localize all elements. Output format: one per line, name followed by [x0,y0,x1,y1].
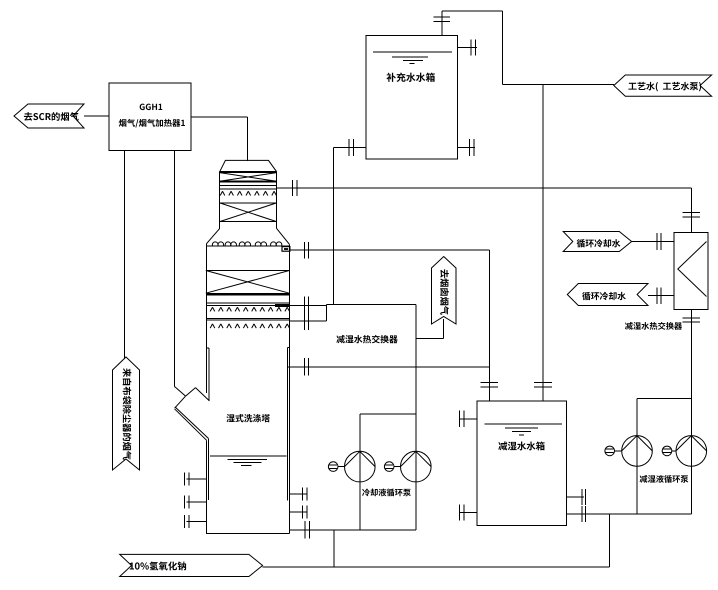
banner: flue gas to SCR [14,104,84,128]
packing X band 3 [206,270,289,272]
main column left wall upper [205,244,207,393]
spray nozzle row 3 [210,324,212,328]
banner: circulating cooling water in [563,232,631,252]
scrubber upper column walls [219,172,221,229]
main column left wall lower [206,440,208,533]
tray line under scallops [206,245,289,247]
makeup tank water level [373,51,452,53]
pipe: makeup tank outlet [333,147,366,149]
label: dehumid liquid circulation pumps [640,475,648,483]
inlet duct bend outline [174,386,185,396]
sump left nozzle 1 [187,478,206,480]
tray lines [220,184,277,186]
pipe: process water header [502,83,614,85]
packing X band 2 [220,202,277,204]
pipe: spray header feed upper [289,249,489,251]
condensing heat exchanger box [327,304,416,306]
valve at P2 [384,462,394,472]
wire: banner to GGH1 [84,115,109,117]
wire: gas line down to plate HX [690,188,692,232]
pipe: NaOH dosing line [263,566,610,568]
tank left nozzle 1 [460,418,477,420]
banner: circulating cooling water out [567,284,648,306]
pipe: tower nozzle to HX box left [289,320,326,322]
sump left nozzle 3 [187,521,206,523]
pipe: cooling water in [632,241,674,243]
wire: process water down to dehumid tank [542,84,544,401]
sump right nozzle 1 [289,493,307,495]
pipe: tank outlet to pump suction [566,513,691,515]
mist eliminator X band 1 [220,172,277,174]
bubble cap scallop row [212,242,218,246]
tank right nozzle capped [566,496,584,498]
wire: pump suction down [609,514,611,567]
main column right wall [288,244,290,533]
wire: GGH1 bottom-left port down to inlet banner [124,151,126,359]
banner: condensate vent (vertical) [432,257,457,325]
heat-exchanger GGH1 box [109,83,191,151]
makeup tank right nozzle [458,47,477,49]
valve at P3 [605,446,615,456]
scrubber bottom edge [206,532,289,534]
tank left nozzle 2 [460,511,477,513]
cooling pump enclosure [360,413,416,415]
tank top feed pipe left [488,250,490,401]
makeup tank top vent pipe [441,11,443,36]
sump left nozzle 2 [187,501,206,503]
wire: plate HX bottom down to pump circuit [690,310,692,399]
label: makeup water tank [386,73,395,82]
wire: banner to HX box [443,319,445,339]
label: dehumid water heat exchanger [625,322,633,330]
dehumid tank water level [484,423,562,425]
wire: GGH1 to scrubber top [191,116,248,118]
wire: tank vent to process water line [442,10,502,12]
spray nozzle row (upper) [220,191,222,195]
tray double line [206,317,289,319]
makeup water tank [366,36,457,159]
label: cooling liquid circulation pumps [362,489,370,497]
pump P1 cooling circulation [345,451,376,482]
wire: makeup outlet down to HX box [332,148,334,305]
pipe: bowl drain to tank [287,366,489,368]
valve at P4 [662,446,672,456]
wall break zigzag at duct entry [186,388,196,397]
banner: process water (process water pump) [614,75,712,96]
banner: 10% sodium hydroxide [120,554,263,576]
scrubber sump water level [210,455,287,457]
label: condensing water heat exchanger [336,335,344,343]
spray header lines [206,302,289,304]
label: wet scrubber tower [226,414,234,422]
scrubber top cap trapezoid [220,160,277,171]
dehumid water tank [477,401,566,526]
inlet duct diagonal walls [175,407,208,439]
inner collection bowl walls [208,348,210,401]
inlet duct vertical drop inside tower [207,438,209,500]
banner: flue gas from bag dust collector (vertical) [113,357,140,470]
sump right nozzle 2 [289,511,307,513]
dehumid pump enclosure [637,397,691,399]
pump P4 dehumid circulation [676,436,707,467]
pipe: scrubber top gas line to right [277,187,692,189]
transition cone [206,228,219,244]
plate heat exchanger body [674,232,708,309]
pipe: scrubber bottom to pump suction [289,529,416,531]
wire: GGH1 bottom-right port down to inlet duct [173,151,175,387]
valve at P1 [328,462,338,472]
pipe: tower nozzle to HX box top [289,304,326,306]
pipe: cooling water out [648,295,674,297]
pump P3 dehumid circulation [622,436,653,467]
wire: NaOH riser to scrubber drain line [333,530,335,567]
label: dehumid water tank [498,442,507,451]
spray nozzle row 2 [210,307,212,311]
pump P2 cooling circulation [401,451,432,482]
makeup tank bottom-right nozzle [458,147,475,149]
damper black box [282,247,290,252]
